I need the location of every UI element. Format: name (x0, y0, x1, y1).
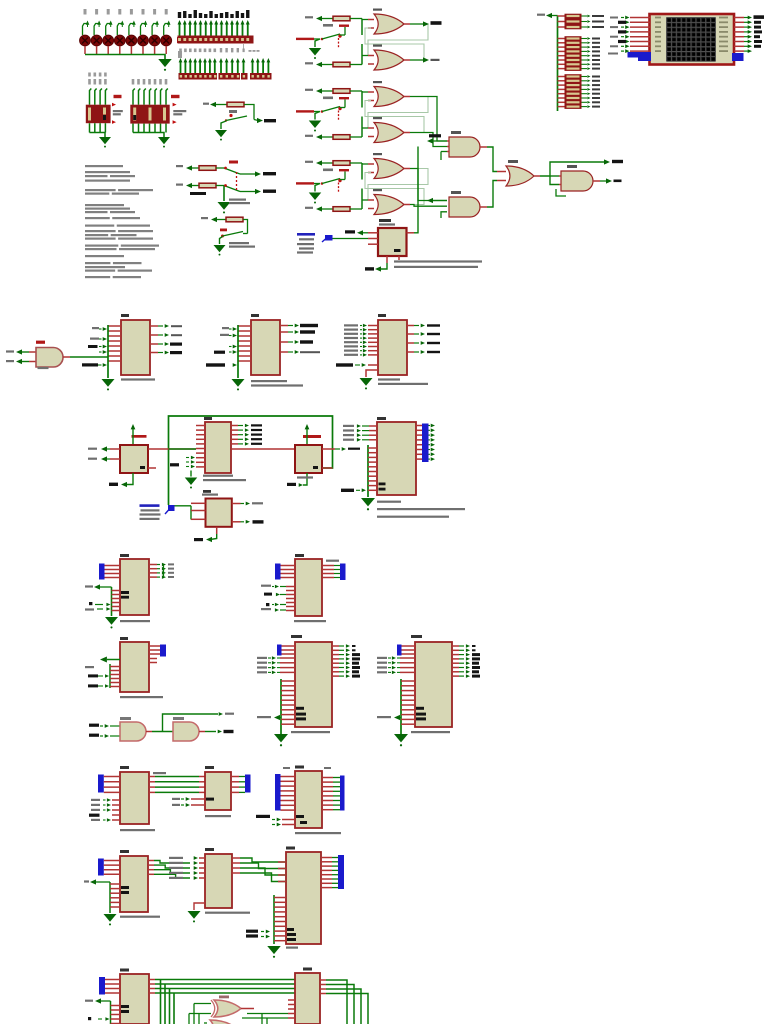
terminal arrow SW-B out1 (255, 171, 261, 176)
IC U20 label (205, 848, 214, 851)
IC U15 ground (274, 734, 288, 742)
NAND gate U11:A input arrows (105, 724, 109, 728)
resnet wire y27 (558, 26, 565, 28)
IC U7 lower left dash (341, 489, 354, 492)
DIP switch DSW1 top labels (88, 73, 91, 77)
IC U12 ground (105, 617, 118, 625)
DIP switch DSW1 body (86, 105, 111, 124)
IC U18 body (205, 772, 231, 810)
wire latch1 Q out (404, 23, 410, 25)
IC U16 left bus pins (401, 680, 415, 682)
IC U19 right wires staircase (148, 860, 154, 862)
connector J2 pins group A (180, 61, 182, 74)
IC U5 left wires from loop (169, 448, 197, 450)
XOR gate U23:A (219, 996, 229, 999)
switch SW9 designator (229, 161, 238, 164)
IC U19 left arrow (90, 879, 96, 884)
wire latch3 top node (361, 163, 363, 180)
IC U14 right top label (326, 560, 339, 562)
wire SW9 common to ground (223, 186, 225, 201)
wire SW8 to output (254, 120, 258, 121)
terminal arrow SW-B out2 (255, 189, 261, 194)
IC U5:B right pins (322, 448, 335, 450)
NAND gate U11:B label (173, 717, 184, 720)
resnet wire y60.0 (558, 59, 565, 61)
U5:C right pins (232, 503, 241, 505)
resistor pack group 1 (565, 14, 582, 30)
IC U25 right pins (321, 857, 332, 859)
IC U13 left labels (85, 666, 94, 668)
IC U18 right pins (231, 776, 239, 778)
IC U24 body (295, 771, 322, 828)
IC U17 note (120, 829, 155, 831)
LED matrix left blue tab (628, 52, 652, 58)
NAND gate U11:A input dashes (89, 724, 99, 727)
IC U18 label (205, 766, 214, 769)
IC U7 left top pins (369, 425, 377, 427)
IC U14 note (294, 620, 326, 622)
IC U7 blue bus bar (422, 424, 429, 463)
terminal arrow SW-C (211, 217, 217, 222)
DIP switch DSW1 designator (114, 95, 122, 98)
IC U12 left bus pins (112, 590, 121, 592)
ground SW-A (215, 130, 227, 137)
resistor R2a (305, 89, 313, 91)
IC U21 body (120, 974, 149, 1024)
black mark in U5:B (313, 466, 318, 469)
SW-C note text (229, 242, 249, 244)
IC U25 right blue bar (338, 855, 344, 889)
IC U9 right net dashes (300, 324, 318, 327)
wire R12 to switch (243, 220, 248, 234)
net dash below R11 (190, 192, 206, 195)
IC U18 right blue bar (245, 775, 251, 793)
DIP switch DSW1 red markers (112, 103, 116, 107)
resnet wire y93.7 (558, 93, 565, 95)
IC U15 left bus pins (281, 680, 295, 682)
IC U19 black pin marks (121, 886, 129, 889)
wire latch1 top node (361, 19, 363, 36)
IC U21 left bus (110, 1001, 112, 1024)
IC U14 top-right pins (322, 565, 334, 567)
wire U4:A out (593, 180, 600, 182)
resistor network bus (557, 16, 559, 112)
IC U12 body (120, 559, 149, 615)
IC U21 left arrow (95, 998, 101, 1003)
IC U14 left lower pins (286, 586, 295, 588)
IC U7 left bus pins (368, 447, 377, 449)
IC U15 left arrows (272, 656, 276, 660)
IC U21 label (120, 969, 129, 972)
IC U7 ground (361, 498, 375, 506)
IC U10 ground (366, 370, 378, 377)
IC U21 black pin marks (121, 1005, 129, 1008)
OR gate U2:B (373, 117, 382, 119)
IC U10 label (378, 314, 386, 317)
IC U9 ground (232, 379, 245, 387)
IC U5:B body (295, 445, 322, 473)
IC U24 black pin marks (296, 815, 304, 818)
IC U24 left blue bar (275, 774, 281, 811)
net dash SW-B out1 (263, 172, 276, 175)
DIP switch DSW2 body (130, 105, 169, 124)
AND gate U2:B (449, 197, 480, 217)
terminal arrow SW-B1 (186, 165, 192, 170)
resnet wire y80.8 (558, 80, 565, 82)
net dash SW-A out (264, 119, 276, 122)
wire to R11 (192, 185, 199, 187)
IC U10 notes (378, 378, 400, 380)
LED matrix left pin labels (610, 17, 618, 19)
IC U5:B trig label (303, 435, 321, 438)
wire U6 bottom to arrow (380, 263, 387, 269)
IC U12 black pin marks (121, 591, 129, 594)
XOR gate U23:B partial (210, 1020, 236, 1024)
LED D6 (142, 9, 145, 15)
terminal arrow SW-B2 (186, 183, 192, 188)
IC U14 left lower rows (261, 585, 271, 587)
LED D7 (153, 9, 156, 15)
net dash top right (612, 160, 623, 163)
wire SW10 to ground (220, 237, 223, 245)
LED D4 (118, 9, 121, 15)
ground SW-B (218, 202, 231, 210)
XOR U23:A input mesh (193, 1004, 195, 1024)
resistor pack group 3 (565, 74, 582, 109)
IC U19 ground (104, 914, 117, 922)
wire latch2 top node (361, 91, 363, 108)
AND gate U2:A (449, 137, 480, 157)
terminal arrow SW-A out (257, 118, 263, 123)
IC U19 body (120, 856, 148, 912)
resnet wire y85.1 (558, 84, 565, 86)
feedback wire latch3 pale (368, 169, 428, 201)
IC U5:B bottom (287, 483, 296, 486)
resnet wire y64.3 (558, 63, 565, 65)
IC U16 black pin marks (416, 707, 424, 710)
IC U12 left arrow (94, 584, 100, 589)
AND gate U1:A input labels (6, 350, 14, 352)
IC U21 blue bar (99, 977, 105, 995)
AND gate U1:A input arrows (16, 349, 22, 354)
IC U8 label (121, 314, 129, 317)
U5:C left bus (190, 506, 192, 520)
wire U2:B out (480, 206, 487, 208)
IC U7 notes (377, 501, 401, 503)
blue net label U6 (297, 233, 315, 236)
IC U8 left net labels (92, 327, 99, 329)
IC U8 body (121, 320, 150, 375)
IC U15 label (291, 635, 302, 638)
IC U8 note (121, 378, 155, 380)
IC U17 left lower arrows (112, 799, 120, 801)
IC U12 left arrows2 (106, 603, 110, 607)
IC U5:B arrow up (305, 424, 310, 429)
resistor R12 (226, 217, 243, 222)
IC U14 body (295, 559, 322, 616)
wire third AND-A input (441, 151, 447, 153)
terminal arrow top right (604, 159, 610, 164)
connector J1 hanging wire (243, 44, 245, 52)
IC U19 top-left pins (104, 860, 120, 862)
IC U17 blue bar (98, 775, 104, 793)
wire latch2 bottom node (361, 117, 363, 138)
IC U9 body (251, 320, 280, 375)
IC U12 top-left pins (105, 565, 121, 567)
IC U13 right pins (149, 645, 160, 647)
net dash U6 bottom (365, 267, 374, 270)
IC U25 left upper stubs (278, 861, 286, 863)
LED D5 (130, 9, 133, 15)
IC U19 note (120, 916, 160, 918)
connector J3 pins group B (220, 61, 222, 74)
IC U9 left pins (238, 325, 251, 327)
feedback wire latch2 pale (368, 97, 428, 129)
IC U7 right arrows (431, 424, 435, 428)
resnet wire y89.4 (558, 88, 565, 90)
IC U15 right pins (332, 645, 339, 647)
XOR U23:A output (241, 1008, 254, 1010)
IC U13 left pins (110, 666, 120, 668)
IC U12 label (120, 554, 129, 557)
net dash U11:B out (224, 730, 234, 733)
resistor R3a (305, 161, 313, 163)
IC U5:A arrow up (131, 424, 136, 429)
IC U9 left net labels (222, 327, 229, 329)
net label SW-C (201, 217, 208, 219)
net dash U5 left (170, 463, 179, 466)
IC U10 lower left dash (336, 363, 353, 366)
documentation text block (85, 165, 123, 167)
IC U9 left arrows (233, 327, 237, 331)
IC U18 black mark (206, 798, 214, 801)
net dash above U2:A (429, 134, 441, 137)
AND gate U2:B label (451, 191, 461, 194)
LED D8 (165, 9, 168, 15)
ground SW-C (214, 245, 226, 252)
blue net label U5:C (140, 504, 160, 507)
IC U5:C label (203, 490, 211, 493)
terminal arrow U4 out (606, 178, 612, 183)
switch SW9 pole wires (216, 167, 224, 169)
IC U12 blue bar (99, 564, 105, 580)
wire to R10 (192, 167, 199, 169)
IC U24 right blue bar (340, 776, 345, 811)
DIP switch DSW2 bottom bus and ground (133, 133, 164, 138)
IC U25 black pin marks (287, 928, 294, 931)
connector J2 body A (179, 73, 218, 80)
terminal arrow U2:B in (427, 198, 433, 203)
net dash latch1 Q (431, 21, 442, 25)
wire blue entry to U5:C (175, 505, 192, 507)
IC U17 body (120, 772, 149, 824)
wire latch3 bottom node (361, 189, 363, 210)
IC U5:A right wire (148, 448, 196, 450)
wire U1:A out to U8 (63, 356, 70, 358)
resnet wire y42.8 (558, 42, 565, 44)
wire big loop top (169, 416, 333, 505)
wire U3 to U4 (550, 175, 559, 177)
IC U14 label (295, 554, 304, 557)
wire SW8 to ground (221, 121, 226, 129)
IC U14 top-left pins (281, 565, 296, 567)
IC U13 left bus (109, 664, 111, 688)
connector J4 body (241, 73, 248, 80)
IC U19 left bus (109, 882, 111, 913)
IC U16 top-left pins (402, 645, 416, 647)
IC U21 top-left pins (105, 979, 120, 981)
resnet wire y55.7 (558, 55, 565, 57)
wire latch1 Qbar out (404, 59, 410, 61)
IC U22 right nested wires (320, 979, 326, 981)
switch SW9 red label left (202, 172, 204, 174)
IC U18 note (205, 815, 231, 817)
NAND gate U11:A label (120, 717, 131, 720)
black mark in U5:A (140, 466, 145, 469)
LED matrix pin names right (719, 17, 728, 19)
LED matrix right pins (734, 17, 744, 19)
IC U10 body (378, 320, 407, 375)
IC U12 left bus (111, 587, 113, 616)
net label for SW-A (203, 103, 209, 105)
DIP switch DSW2 top labels (132, 79, 135, 85)
IC U7 black pin marks (379, 483, 386, 486)
ground latch3 (315, 184, 320, 192)
DIP switch DSW2 top pins (133, 89, 135, 105)
IC U24 label (295, 766, 304, 769)
IC U17 label (120, 766, 129, 769)
IC U24 right pins (322, 777, 333, 779)
IC U24 note (295, 832, 341, 834)
connector J1 labels (178, 12, 181, 18)
IC U25 left bus pins (274, 897, 286, 899)
IC U16 ground (394, 734, 408, 742)
LED matrix left pins (630, 17, 650, 19)
wire U6 in2 (333, 238, 369, 240)
connector J5 body (250, 73, 272, 80)
IC U12 left small square (89, 602, 92, 605)
vertical bus lines from U21 (160, 980, 162, 1024)
IC U19 label (120, 850, 129, 853)
NAND gate U11:B (173, 722, 199, 741)
LED matrix pin names left (655, 17, 661, 19)
LED matrix right blue tab (732, 53, 744, 61)
resistor R3b (305, 207, 313, 209)
black mark in U6 (394, 249, 401, 252)
IC U16 left bus (400, 679, 402, 734)
terminal arrow resnet (546, 13, 552, 18)
U6 bottom pins (386, 256, 388, 263)
IC U13 right blue bar (160, 645, 166, 657)
label RN1 (177, 37, 184, 43)
IC U5 left pins (196, 425, 205, 427)
ground latch2 (315, 112, 320, 120)
IC U21 right bus wires (149, 979, 155, 981)
NAND gate U11:A (110, 725, 120, 727)
AND gate U4:A label (567, 165, 577, 168)
wire U5 to U5:B (231, 448, 295, 450)
LED D3 (107, 9, 110, 15)
U5:C gray notes (141, 509, 160, 511)
IC U5:A left pins (110, 448, 120, 450)
IC U16 note (411, 731, 450, 733)
IC U13 note (120, 696, 163, 698)
IC U25 ground (267, 946, 281, 954)
IC U20 left arrows (194, 856, 198, 860)
IC U8 ground (102, 379, 115, 387)
IC U7 right pins (416, 425, 422, 427)
DIP switch DSW2 designator (171, 95, 180, 98)
blue bus entry U6 in2 (325, 235, 333, 241)
switch SW2 in latch (323, 97, 333, 100)
resnet wire y102.3 (558, 101, 565, 103)
IC U16 label (411, 635, 422, 638)
wire mesh to U22 left (247, 1013, 288, 1015)
U5:C left pins (191, 502, 206, 504)
XOR gate U23:A arc (211, 1000, 215, 1017)
switch SW9 actuator dashes (236, 172, 238, 174)
resnet wire y106.6 (558, 106, 565, 108)
IC U8 right pins (150, 325, 158, 327)
IC U24 top labels (283, 767, 290, 769)
IC U15 note (291, 731, 330, 733)
DIP switch DSW1 side note (113, 110, 123, 112)
AND gate U1:A label (36, 341, 45, 344)
IC U20 right pins (232, 857, 240, 859)
IC U9 left net dashes (214, 351, 225, 354)
ground for LED row (158, 59, 172, 67)
resistor R1b (305, 62, 313, 64)
IC U15 left arrow low (274, 715, 280, 720)
LED D1 (84, 9, 87, 15)
wire to R12 (217, 219, 226, 221)
terminal arrow latch1 Q (423, 21, 429, 26)
IC U7 left bus (367, 445, 369, 497)
resistor R1a (305, 16, 313, 18)
IC U8 right net labels (171, 325, 182, 327)
IC U15 left blue bar (277, 645, 282, 656)
IC U7 label (377, 417, 386, 420)
net dash U24 lower left (256, 815, 270, 818)
OR gate U3:B (373, 189, 382, 191)
U5:C bottom wire (216, 527, 218, 534)
wire U11 mid (146, 731, 152, 733)
IC U18 left arrows (186, 797, 190, 801)
OR gate U3:A (373, 153, 382, 155)
connector J3 body (219, 73, 241, 80)
wires SW9 outputs (240, 173, 256, 175)
resnet wire y21.5 (558, 21, 565, 23)
IC U9 notes (251, 380, 287, 382)
IC U5:A body (120, 445, 148, 473)
IC U25 left bus (273, 895, 275, 944)
net dash SW-B out2 (263, 190, 276, 193)
IC U22 label (303, 968, 312, 971)
IC U5:C body (206, 499, 232, 527)
IC U13 left output arrow (100, 657, 107, 663)
IC U19 blue bar (98, 859, 104, 876)
IC U8 left net dashes (88, 345, 98, 348)
resnet wire y38.5 (558, 38, 565, 40)
IC U21 left small dot (88, 1017, 91, 1020)
resistor R2b (305, 135, 313, 137)
AND gate U1:A note (38, 367, 49, 369)
IC U8 left bus (107, 325, 109, 378)
DIP switch DSW1 top pins (90, 89, 92, 105)
U6 note text (394, 260, 482, 262)
net dash U5:C right (253, 520, 264, 523)
wire latch1 bottom node (361, 44, 363, 65)
